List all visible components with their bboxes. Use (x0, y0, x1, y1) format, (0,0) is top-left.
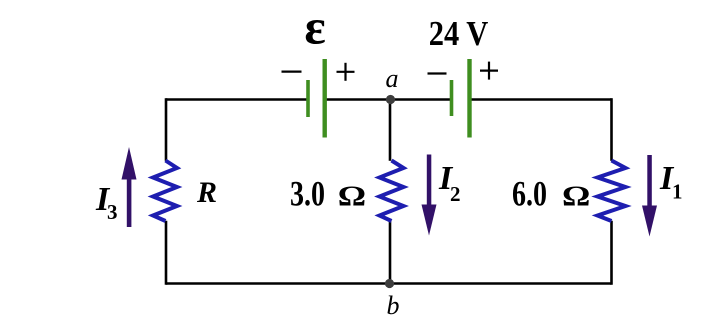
svg-text:3: 3 (107, 200, 118, 224)
svg-text:3.0: 3.0 (290, 173, 325, 213)
svg-text:6.0: 6.0 (512, 173, 547, 213)
svg-text:24 V: 24 V (429, 15, 489, 53)
svg-text:a: a (386, 64, 399, 93)
svg-text:Ω: Ω (338, 180, 366, 212)
svg-text:ε: ε (304, 0, 325, 55)
svg-text:b: b (387, 291, 400, 320)
svg-text:1: 1 (672, 180, 683, 204)
svg-text:Ω: Ω (562, 180, 590, 212)
svg-text:R: R (196, 176, 217, 209)
svg-text:2: 2 (450, 182, 461, 206)
